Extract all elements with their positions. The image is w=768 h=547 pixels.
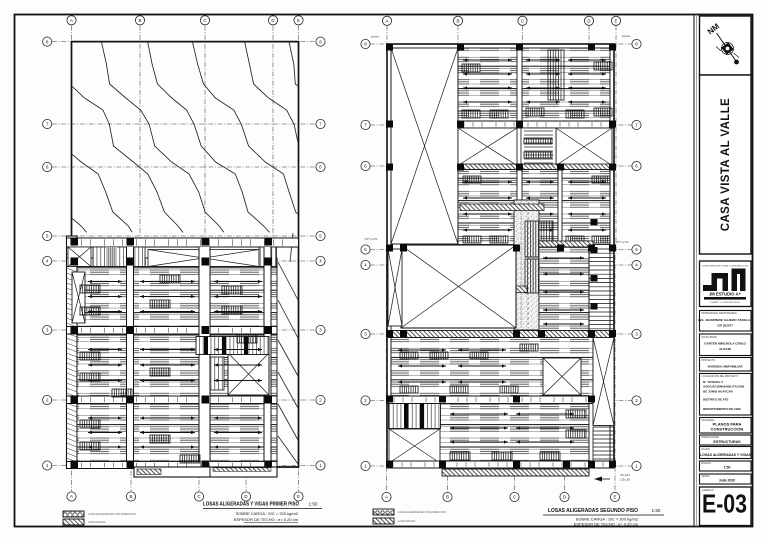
svg-text:A: A — [385, 495, 388, 500]
plan2 bajada arrow — [594, 473, 630, 482]
plan2 stirrups top slab — [462, 62, 612, 118]
svg-text:B: B — [130, 494, 133, 499]
svg-text:D: D — [244, 494, 247, 499]
plan1 right grid bubbles 8-1 — [316, 37, 325, 470]
plan1 slab rows2-1 — [77, 404, 277, 462]
plan1 vertical grid lines — [72, 26, 299, 492]
svg-text:DE JUNIO HUAYCAN: DE JUNIO HUAYCAN — [703, 389, 733, 393]
plan2 X box rows3-2 — [543, 358, 581, 395]
plan1 left bearing wall — [67, 236, 78, 467]
svg-text:D: D — [587, 19, 590, 24]
plan2 stair ladder strip top — [548, 50, 564, 100]
svg-text:platea: platea — [371, 35, 380, 39]
svg-text:1:50: 1:50 — [724, 466, 731, 470]
svg-text:D: D — [563, 495, 566, 500]
plan2 X box bottom-left — [389, 429, 440, 463]
plan1 beam row 4 — [67, 258, 278, 267]
svg-text:ING. JEANPIERE GAJERO TANGLAJ: ING. JEANPIERE GAJERO TANGLAJ — [698, 318, 752, 322]
plan1 tall X box left — [72, 272, 85, 323]
plan2 right X strip lower — [593, 338, 614, 426]
plan1 slab rows4-3 — [77, 267, 277, 327]
svg-text:ESTRUCTURAS: ESTRUCTURAS — [713, 440, 741, 444]
svg-text:ESPECIALIDAD: ESPECIALIDAD — [702, 436, 720, 439]
plan2 slab right rows5-3 — [539, 247, 589, 331]
plan2 rebar arrows top slab — [463, 58, 606, 103]
svg-text:SOLICITANTE: SOLICITANTE — [702, 336, 718, 339]
plan2 outline walls — [387, 44, 614, 466]
plan2 small X strip left — [388, 249, 402, 326]
plan2 rebar arrows rows2-1 — [450, 412, 574, 443]
plan2 vertical beams mid — [517, 170, 562, 245]
plan2 rebar arrows right slab — [543, 256, 584, 325]
plan2 stirrups mid slab — [463, 176, 610, 243]
plan2 X box row7-6 left — [458, 128, 517, 166]
plan1 rebar arrows — [88, 280, 262, 449]
svg-text:JM ESTUDIO A+: JM ESTUDIO A+ — [709, 292, 742, 297]
plan1 vertical joist band below row3 — [196, 337, 269, 355]
plan1 left grid bubbles 8-1 — [43, 37, 52, 470]
plan1 beam row 2 — [67, 396, 278, 404]
plan1 beam row 5 — [67, 238, 299, 247]
svg-text:DEPARTAMENTO DE LIMA: DEPARTAMENTO DE LIMA — [703, 407, 742, 411]
plan2 bottom grid bubbles — [382, 492, 620, 501]
svg-text:LOSA ALIGERADA EN UNA DIRECCIO: LOSA ALIGERADA EN UNA DIRECCION — [398, 510, 446, 514]
svg-text:FECHA: FECHA — [702, 475, 711, 478]
svg-text:D: D — [271, 18, 274, 23]
plan1 hatched sill — [155, 267, 238, 270]
svg-text:ESCALA: ESCALA — [702, 462, 712, 465]
svg-text:B: B — [457, 19, 460, 24]
svg-text:CASA VISTA AL VALLE: CASA VISTA AL VALLE — [720, 98, 732, 231]
svg-text:DISEÑO Y CONSTRUCCION: DISEÑO Y CONSTRUCCION — [711, 301, 740, 304]
plan2 slab top — [458, 48, 610, 121]
plan2 beam row 1 — [387, 461, 614, 468]
plan1 X box rows3-2 — [228, 353, 269, 395]
plan2 slab rows2-1 — [391, 404, 589, 462]
company logo box — [700, 261, 752, 307]
svg-text:NPT+2.60: NPT+2.60 — [616, 240, 629, 244]
plan1 beam row 1 — [67, 462, 278, 469]
svg-text:SOBRE CARGA : S/C = 200 kg/m2: SOBRE CARGA : S/C = 200 kg/m2 — [236, 511, 299, 516]
svg-text:DISTRITO DE ATE: DISTRITO DE ATE — [703, 398, 728, 402]
svg-text:CIP 202077: CIP 202077 — [717, 324, 733, 328]
svg-text:PROYECTO: PROYECTO — [702, 359, 716, 362]
plan1 slab rows3-2 — [77, 334, 277, 396]
plan2 rebar congestion blob — [528, 344, 542, 391]
svg-text:E: E — [297, 18, 300, 23]
plan1 title — [203, 502, 322, 523]
plan2 stirrups rows3-2 — [400, 344, 538, 393]
plan2 horizontal grid lines — [370, 44, 637, 466]
svg-text:VIVIENDA UNIFAMILIAR: VIVIENDA UNIFAMILIAR — [707, 364, 743, 368]
plan2 top grid bubbles — [382, 16, 620, 25]
plan2 beam row 3 hatched — [388, 331, 614, 338]
plan2 beam row5 hatched — [539, 241, 593, 247]
plan1 vertical joist strip 1 — [93, 247, 145, 267]
svg-text:LOSAS ALIGERADAS Y VIGAS: LOSAS ALIGERADAS Y VIGAS — [700, 453, 752, 457]
svg-text:(.25x.20): (.25x.20) — [620, 478, 630, 482]
plan1 flat X brace — [148, 250, 259, 267]
plan2 beam row 6 hatched — [458, 164, 612, 170]
plan1 vertical strip below X box — [210, 357, 224, 390]
construction plans box — [700, 418, 752, 434]
plan1 bottom grid bubbles A-E — [67, 492, 303, 501]
svg-text:platea: platea — [622, 34, 631, 38]
plan2 tiny level labels — [365, 34, 631, 244]
svg-text:LOSA MACIZA: LOSA MACIZA — [398, 519, 416, 523]
svg-text:B: B — [446, 495, 449, 500]
svg-text:C: C — [197, 494, 200, 499]
plan2 stair speckle strip — [514, 200, 539, 330]
svg-text:Julio 2020: Julio 2020 — [719, 478, 736, 482]
svg-text:ESPESOR DE TECHO : e= 0.20 cm: ESPESOR DE TECHO : e= 0.20 cm — [234, 517, 299, 522]
svg-text:A: A — [70, 18, 73, 23]
plan2 vertical grid lines — [387, 26, 617, 493]
svg-text:C: C — [203, 18, 206, 23]
plan2 right hatch lower — [593, 427, 614, 463]
title block column frame — [694, 15, 697, 527]
sheet number box E-03 — [700, 487, 752, 526]
plan2 right grid bubbles — [632, 39, 641, 470]
svg-text:VA-101: VA-101 — [620, 473, 630, 477]
plan1 stirrup clusters — [80, 275, 257, 463]
plan2 big X box mid-left — [401, 245, 516, 328]
plan2 vertical joist strip bottom-left — [389, 404, 441, 429]
svg-text:PLANO: PLANO — [702, 448, 710, 451]
north arrow box — [700, 16, 752, 75]
svg-text:LOSAS ALIGERADAS Y VIGAS PRIME: LOSAS ALIGERADAS Y VIGAS PRIMER PISO — [203, 502, 299, 508]
plan1 column blocks — [71, 238, 273, 469]
svg-text:E-03: E-03 — [702, 489, 747, 519]
plan2 legend — [373, 509, 446, 524]
svg-text:SOMOS ARQUITECTURA Y CONSTRUCC: SOMOS ARQUITECTURA Y CONSTRUCCION — [702, 265, 749, 268]
svg-text:C: C — [513, 495, 516, 500]
plan2 stair flight ladders — [525, 221, 553, 293]
location box — [700, 374, 752, 416]
plan1 legend — [63, 511, 136, 525]
svg-text:A: A — [70, 494, 73, 499]
plan1 beam row 3 — [67, 327, 278, 335]
svg-text:LOSA ALIGERADA EN UNA DIRECCIO: LOSA ALIGERADA EN UNA DIRECCION — [88, 512, 136, 516]
plan2 column blocks — [386, 44, 616, 468]
svg-text:ALDAIR: ALDAIR — [719, 347, 731, 351]
plan2 beam row 2 — [388, 396, 593, 404]
svg-text:E: E — [297, 494, 300, 499]
svg-text:1:50: 1:50 — [309, 502, 318, 507]
svg-text:NPT+2.60: NPT+2.60 — [365, 237, 378, 241]
plan2 right wall hatch strip — [589, 249, 614, 331]
plan1 bottom landing — [134, 467, 277, 477]
sheet name box — [700, 447, 752, 459]
plan2 slab rows6-5 — [458, 170, 610, 245]
plan1 vertical joist strip 2 — [259, 247, 277, 267]
plan2 left grid bubbles — [361, 39, 370, 470]
plan1 slope lines right strip — [278, 233, 298, 464]
client box — [700, 334, 752, 356]
responsible engineer box — [698, 311, 752, 332]
svg-text:LOSAS ALIGERADAS SEGUNDO PISO: LOSAS ALIGERADAS SEGUNDO PISO — [548, 508, 638, 514]
svg-text:E: E — [615, 19, 618, 24]
svg-text:E: E — [614, 495, 617, 500]
svg-text:1:50: 1:50 — [652, 508, 661, 513]
plan2 rebar arrows rows3-2 — [398, 348, 506, 383]
plan1 stair X box row5 — [68, 247, 91, 267]
speciality box — [700, 435, 752, 445]
scale box — [700, 461, 752, 471]
svg-text:GARTER MINCHOLA CIRILO: GARTER MINCHOLA CIRILO — [704, 341, 746, 345]
project type box — [700, 358, 752, 372]
svg-text:LOSA MACIZA: LOSA MACIZA — [88, 520, 106, 524]
svg-text:LOCALIZACION DEL PROYECTO: LOCALIZACION DEL PROYECTO — [702, 375, 739, 378]
plan1 horizontal grid lines — [52, 42, 320, 466]
date box — [700, 474, 752, 484]
plan2 rebar arrows mid slab — [463, 180, 606, 231]
plan2 X box row7-6 right — [556, 128, 612, 166]
svg-text:B: B — [139, 18, 142, 23]
plan2 stair landing beams hatched — [460, 204, 544, 293]
plan2 right wall column blocks — [591, 219, 598, 310]
svg-text:A: A — [386, 19, 389, 24]
plan2 bottom hatched beam — [442, 469, 589, 476]
svg-text:N° TICONAL 2: N° TICONAL 2 — [703, 380, 723, 384]
plan2 slab rows3-2 — [391, 338, 593, 397]
plan2 tall X upper-left — [391, 48, 458, 244]
plan1 top grid bubbles A-E — [67, 16, 303, 25]
plan2 vertical beam C top — [517, 48, 522, 128]
svg-text:CONSTRUCCIÓN: CONSTRUCCIÓN — [711, 426, 744, 431]
svg-text:C: C — [521, 19, 524, 24]
plan1 lot boundary outline — [72, 42, 299, 467]
svg-text:ESPESOR DE TECHO : e= 0.20 cm: ESPESOR DE TECHO : e= 0.20 cm — [574, 522, 639, 527]
plan2 stirrups rows2-1 — [450, 410, 586, 460]
plan1 vertical beams — [127, 247, 272, 462]
svg-text:PROFESIONAL RESPONSABLE: PROFESIONAL RESPONSABLE — [702, 312, 738, 315]
plan2 title — [543, 508, 664, 527]
plan2 beam row 7 — [458, 121, 614, 128]
project name box CASA VISTA AL VALLE — [700, 75, 752, 254]
plan2 center strip row7-6 — [521, 128, 556, 166]
svg-text:ASOCIACION/HABILITACION: ASOCIACION/HABILITACION — [703, 385, 744, 389]
